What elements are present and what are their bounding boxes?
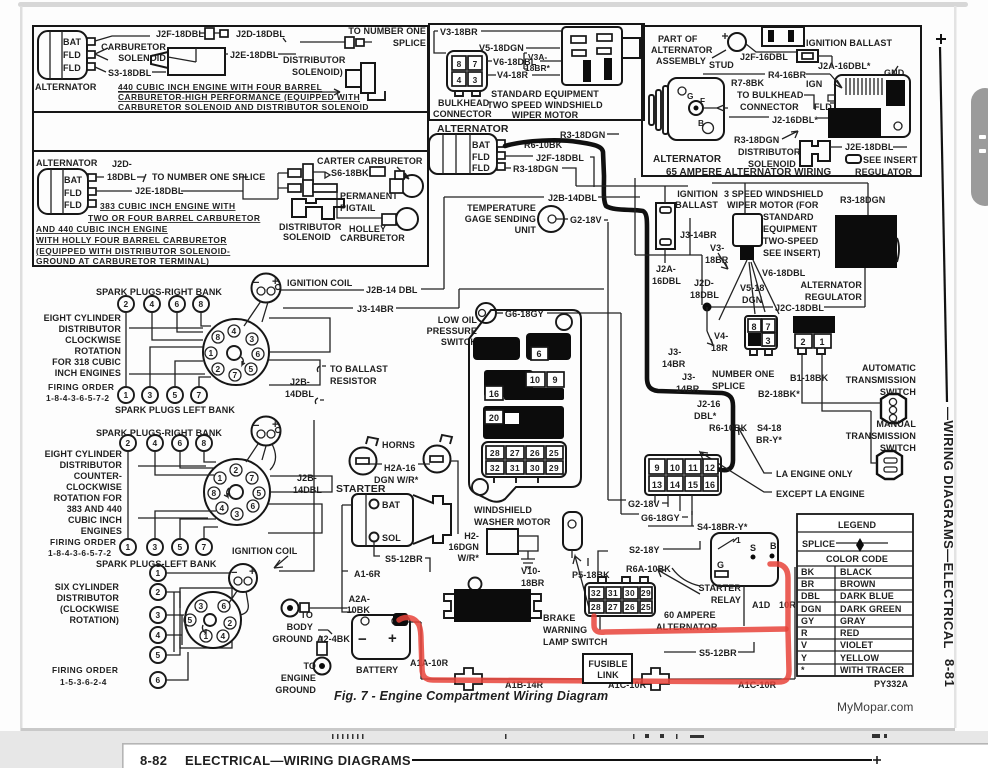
svg-text:EIGHT CYLINDER: EIGHT CYLINDER bbox=[44, 313, 122, 323]
heavy wire R3-18DGN main run bbox=[505, 140, 733, 470]
svg-text:J2D-: J2D- bbox=[694, 278, 714, 288]
svg-text:Fig. 7 - Engine Compartment Wi: Fig. 7 - Engine Compartment Wiring Diagr… bbox=[334, 689, 608, 703]
svg-text:V3-18BR: V3-18BR bbox=[440, 27, 478, 37]
svg-text:BROWN: BROWN bbox=[840, 579, 876, 589]
wiper wires fan to bulkhead 2 bbox=[719, 260, 779, 320]
svg-text:S5-12BR: S5-12BR bbox=[385, 554, 423, 564]
svg-text:32: 32 bbox=[591, 588, 601, 598]
svg-text:8-81: 8-81 bbox=[942, 659, 957, 687]
svg-text:4: 4 bbox=[155, 630, 160, 640]
svg-text:31: 31 bbox=[608, 588, 618, 598]
stud bbox=[728, 33, 746, 51]
svg-text:6: 6 bbox=[250, 501, 255, 511]
svg-text:28: 28 bbox=[591, 602, 601, 612]
svg-text:J2F-16DBL: J2F-16DBL bbox=[740, 52, 788, 62]
terminals 1 3 5 7 (sec2) bbox=[120, 539, 212, 555]
connector grid 9-16 bbox=[645, 455, 721, 495]
svg-text:DGN: DGN bbox=[742, 295, 762, 305]
ignition coil IC3 bbox=[229, 564, 257, 615]
terminals 2 4 6 8 (sec2) bbox=[120, 435, 212, 451]
svg-text:A1A-10R: A1A-10R bbox=[410, 658, 449, 668]
svg-text:8: 8 bbox=[201, 438, 206, 448]
svg-text:G2-18V: G2-18V bbox=[628, 499, 660, 509]
svg-text:6: 6 bbox=[255, 349, 260, 359]
svg-text:25: 25 bbox=[549, 448, 559, 458]
svg-text:CARBURETOR SOLENOID AND DISTRI: CARBURETOR SOLENOID AND DISTRIBUTOR SOLE… bbox=[118, 102, 369, 112]
svg-text:BR: BR bbox=[801, 579, 815, 589]
svg-text:+: + bbox=[249, 566, 256, 578]
svg-text:6: 6 bbox=[174, 299, 179, 309]
svg-text:*: * bbox=[801, 665, 805, 675]
two speed wiper motor symbol bbox=[562, 27, 640, 85]
connector J2F bbox=[200, 32, 220, 34]
svg-text:PART OF: PART OF bbox=[658, 34, 698, 44]
scrollbar pill bbox=[971, 88, 988, 206]
svg-text:18BR: 18BR bbox=[521, 578, 545, 588]
svg-text:27: 27 bbox=[510, 448, 520, 458]
distributor D2 (8cyl counter-clockwise) bbox=[204, 459, 270, 525]
starter motor bbox=[352, 494, 451, 546]
svg-text:440 CUBIC INCH ENGINE WITH FOU: 440 CUBIC INCH ENGINE WITH FOUR BARREL bbox=[118, 82, 322, 92]
distributor solenoid symbol (383) bbox=[292, 199, 344, 219]
svg-text:FLD: FLD bbox=[64, 200, 82, 210]
svg-text:5: 5 bbox=[248, 364, 253, 374]
distributor D3 (6cyl) bbox=[180, 588, 241, 648]
svg-text:3: 3 bbox=[155, 610, 160, 620]
svg-text:J2-16DBL*: J2-16DBL* bbox=[772, 115, 818, 125]
svg-text:2: 2 bbox=[125, 438, 130, 448]
svg-text:BRAKE: BRAKE bbox=[543, 613, 576, 623]
svg-text:CLOCKWISE: CLOCKWISE bbox=[65, 335, 121, 345]
svg-text:ALTERNATOR: ALTERNATOR bbox=[653, 154, 722, 165]
svg-text:ENGINES: ENGINES bbox=[81, 526, 122, 536]
svg-text:4: 4 bbox=[219, 503, 224, 513]
bulkhead connector (8 7 / 4 3) bbox=[433, 51, 492, 119]
svg-text:5: 5 bbox=[172, 390, 177, 400]
svg-text:TO NUMBER ONE SPLICE: TO NUMBER ONE SPLICE bbox=[152, 172, 265, 182]
svg-text:J3-: J3- bbox=[668, 347, 681, 357]
svg-text:15: 15 bbox=[688, 480, 698, 490]
alternator regulator blob bbox=[835, 215, 897, 268]
svg-text:MyMopar.com: MyMopar.com bbox=[837, 700, 913, 714]
svg-text:J2B-14 DBL: J2B-14 DBL bbox=[366, 285, 418, 295]
wires section 1 bbox=[126, 312, 211, 387]
svg-text:GRAY: GRAY bbox=[840, 616, 866, 626]
svg-text:SPLICE: SPLICE bbox=[712, 381, 745, 391]
svg-text:WITH HOLLY FOUR BARREL CARBURE: WITH HOLLY FOUR BARREL CARBURETOR bbox=[36, 235, 227, 245]
wire FLD splice bbox=[95, 48, 108, 72]
alternator A3 (main diagram) bbox=[429, 123, 509, 174]
svg-text:PY332A: PY332A bbox=[874, 679, 909, 689]
fuse block outline bbox=[469, 310, 581, 502]
bulkhead connector 2 (8 7 / blk 3) bbox=[745, 316, 777, 355]
svg-text:8: 8 bbox=[198, 299, 203, 309]
svg-text:12: 12 bbox=[705, 463, 715, 473]
page top gray band bbox=[18, 2, 968, 7]
svg-text:60 AMPERE: 60 AMPERE bbox=[664, 610, 716, 620]
svg-text:Y: Y bbox=[801, 653, 807, 663]
svg-text:AUTOMATIC: AUTOMATIC bbox=[862, 363, 916, 373]
alternator symbol (65A) bbox=[649, 78, 728, 140]
svg-text:DISTRIBUTOR: DISTRIBUTOR bbox=[738, 147, 801, 157]
svg-text:FUSIBLE: FUSIBLE bbox=[588, 659, 627, 669]
svg-text:R3-18DGN: R3-18DGN bbox=[840, 195, 885, 205]
svg-text:TWO SPEED WINDSHIELD: TWO SPEED WINDSHIELD bbox=[487, 100, 603, 110]
svg-text:WASHER MOTOR: WASHER MOTOR bbox=[474, 517, 551, 527]
svg-text:S3-18DBL: S3-18DBL bbox=[108, 68, 152, 78]
svg-text:B: B bbox=[698, 118, 704, 128]
svg-text:BAT: BAT bbox=[63, 37, 82, 47]
G6-18GY sender bbox=[476, 303, 496, 323]
svg-text:ROTATION): ROTATION) bbox=[69, 615, 119, 625]
wire J3-14BR long bbox=[283, 289, 604, 308]
svg-text:DISTRIBUTOR: DISTRIBUTOR bbox=[283, 55, 346, 65]
svg-text:14DBL: 14DBL bbox=[293, 485, 322, 495]
svg-text:B: B bbox=[770, 541, 777, 551]
svg-text:3 SPEED WINDSHIELD: 3 SPEED WINDSHIELD bbox=[724, 189, 824, 199]
svg-text:+: + bbox=[388, 630, 397, 647]
svg-text:G: G bbox=[717, 560, 724, 570]
svg-text:ALTERNATOR: ALTERNATOR bbox=[651, 45, 713, 55]
svg-text:1: 1 bbox=[208, 348, 213, 358]
fuse block bars row1 bbox=[473, 337, 520, 360]
svg-text:—WIRING DIAGRAMS—ELECTRICAL: —WIRING DIAGRAMS—ELECTRICAL bbox=[941, 407, 956, 649]
svg-text:3: 3 bbox=[152, 542, 157, 552]
bulkhead cross connector 2 bbox=[642, 668, 669, 690]
svg-text:5: 5 bbox=[256, 488, 261, 498]
svg-text:TWO-SPEED: TWO-SPEED bbox=[763, 236, 819, 246]
svg-text:2: 2 bbox=[800, 337, 805, 347]
svg-text:BATTERY: BATTERY bbox=[356, 665, 398, 675]
svg-text:TWO OR FOUR BARREL CARBURETOR: TWO OR FOUR BARREL CARBURETOR bbox=[88, 213, 260, 223]
inset box frame (two speed wiper motor) bbox=[429, 24, 644, 120]
svg-text:J2D-18DBL: J2D-18DBL bbox=[236, 29, 285, 39]
svg-text:1: 1 bbox=[819, 337, 824, 347]
svg-text:TRANSMISSION: TRANSMISSION bbox=[846, 375, 916, 385]
svg-text:13: 13 bbox=[652, 480, 662, 490]
spark plug terminals 1 3 5 7 bbox=[118, 387, 207, 403]
svg-text:11: 11 bbox=[688, 463, 698, 473]
divider line above 383 insert bbox=[33, 150, 428, 152]
svg-text:FIRING ORDER: FIRING ORDER bbox=[52, 665, 118, 675]
svg-text:S6-18BK: S6-18BK bbox=[331, 168, 369, 178]
svg-text:18DBL: 18DBL bbox=[690, 290, 719, 300]
svg-text:TEMPERATURE: TEMPERATURE bbox=[467, 203, 536, 213]
svg-text:27: 27 bbox=[608, 602, 618, 612]
svg-text:WIPER MOTOR (FOR: WIPER MOTOR (FOR bbox=[727, 200, 819, 210]
svg-text:CLOCKWISE: CLOCKWISE bbox=[66, 482, 122, 492]
svg-text:30: 30 bbox=[625, 588, 635, 598]
svg-text:DISTRIBUTOR: DISTRIBUTOR bbox=[60, 460, 123, 470]
svg-text:65 AMPERE ALTERNATOR WIRING: 65 AMPERE ALTERNATOR WIRING bbox=[666, 167, 832, 178]
wire BAT to J2F-18DBL bbox=[95, 36, 150, 41]
svg-text:BODY: BODY bbox=[287, 622, 313, 632]
svg-text:BLACK: BLACK bbox=[840, 567, 872, 577]
svg-text:LINK: LINK bbox=[597, 670, 619, 680]
svg-text:LEGEND: LEGEND bbox=[838, 520, 877, 530]
bulkhead cross connector 1 bbox=[455, 668, 482, 690]
svg-text:3: 3 bbox=[473, 75, 478, 85]
svg-text:J2A-16DBL*: J2A-16DBL* bbox=[818, 61, 871, 71]
svg-text:2: 2 bbox=[215, 364, 220, 374]
svg-text:5: 5 bbox=[177, 542, 182, 552]
svg-text:COLOR CODE: COLOR CODE bbox=[826, 554, 888, 564]
svg-text:CARBURETOR: CARBURETOR bbox=[101, 42, 166, 52]
svg-text:BR-Y*: BR-Y* bbox=[756, 435, 782, 445]
svg-text:MANUAL: MANUAL bbox=[876, 419, 916, 429]
svg-text:BAT: BAT bbox=[382, 500, 401, 510]
legend table bbox=[797, 514, 913, 676]
svg-text:BK: BK bbox=[801, 567, 815, 577]
svg-text:FOR 318 CUBIC: FOR 318 CUBIC bbox=[52, 357, 121, 367]
svg-text:7: 7 bbox=[201, 542, 206, 552]
red highlighter path (battery to starter relay B) bbox=[399, 564, 789, 682]
svg-text:5: 5 bbox=[155, 650, 160, 660]
3 speed wiper motor symbol bbox=[733, 214, 762, 246]
svg-text:8: 8 bbox=[751, 322, 756, 332]
svg-text:DARK GREEN: DARK GREEN bbox=[840, 604, 902, 614]
svg-text:4: 4 bbox=[152, 438, 157, 448]
svg-text:LAMP SWITCH: LAMP SWITCH bbox=[543, 637, 607, 647]
svg-text:1: 1 bbox=[123, 390, 128, 400]
svg-text:J2D-: J2D- bbox=[112, 159, 132, 169]
next page (8-82) bbox=[122, 743, 988, 768]
svg-text:H2-: H2- bbox=[464, 531, 479, 541]
svg-text:SPARK PLUGS LEFT BANK: SPARK PLUGS LEFT BANK bbox=[115, 405, 235, 415]
svg-text:WARNING: WARNING bbox=[543, 625, 587, 635]
svg-text:383 CUBIC INCH ENGINE WITH: 383 CUBIC INCH ENGINE WITH bbox=[100, 201, 235, 211]
svg-text:10BK: 10BK bbox=[347, 605, 371, 615]
svg-text:V: V bbox=[801, 640, 807, 650]
svg-text:S4-18: S4-18 bbox=[757, 423, 782, 433]
svg-text:18R: 18R bbox=[711, 343, 728, 353]
svg-text:7: 7 bbox=[473, 59, 478, 69]
svg-text:9: 9 bbox=[654, 463, 659, 473]
svg-text:STARTER: STARTER bbox=[698, 583, 741, 593]
svg-text:8: 8 bbox=[457, 59, 462, 69]
svg-text:S: S bbox=[750, 543, 756, 553]
svg-text:ASSEMBLY: ASSEMBLY bbox=[656, 56, 706, 66]
svg-text:R7-8BK: R7-8BK bbox=[731, 78, 765, 88]
svg-text:1: 1 bbox=[155, 568, 160, 578]
svg-text:16DGN: 16DGN bbox=[448, 542, 479, 552]
svg-text:P5-18BK: P5-18BK bbox=[572, 570, 610, 580]
svg-text:1: 1 bbox=[736, 535, 741, 545]
svg-text:WIPER MOTOR: WIPER MOTOR bbox=[512, 110, 579, 120]
svg-text:8: 8 bbox=[215, 332, 220, 342]
svg-text:GND: GND bbox=[884, 68, 905, 78]
svg-text:COUNTER-: COUNTER- bbox=[74, 471, 122, 481]
svg-text:J2E-18DBL: J2E-18DBL bbox=[845, 142, 894, 152]
svg-text:3: 3 bbox=[249, 334, 254, 344]
svg-text:GROUND AT CARBURETOR TERMINAL): GROUND AT CARBURETOR TERMINAL) bbox=[36, 256, 209, 266]
svg-text:2: 2 bbox=[123, 299, 128, 309]
svg-text:W/R*: W/R* bbox=[458, 553, 480, 563]
inset box frame (65 ampere alternator wiring) bbox=[642, 26, 921, 176]
svg-text:J2E-18DBL: J2E-18DBL bbox=[230, 50, 279, 60]
brake warning lamp switch bbox=[563, 512, 582, 558]
svg-text:R: R bbox=[801, 628, 808, 638]
svg-text:(EQUIPPED WITH DISTRIBUTOR SOL: (EQUIPPED WITH DISTRIBUTOR SOLENOID- bbox=[36, 246, 230, 256]
connector 2 1 with black top bbox=[793, 316, 835, 354]
svg-text:TO BALLAST: TO BALLAST bbox=[330, 364, 388, 374]
svg-text:V4-: V4- bbox=[714, 331, 728, 341]
svg-text:EXCEPT LA ENGINE: EXCEPT LA ENGINE bbox=[776, 489, 865, 499]
svg-text:SEE INSERT): SEE INSERT) bbox=[763, 248, 821, 258]
carburetor solenoid symbol bbox=[168, 48, 225, 75]
page right edge bbox=[954, 6, 957, 728]
svg-text:GAGE SENDING: GAGE SENDING bbox=[465, 214, 536, 224]
battery bbox=[352, 613, 410, 675]
splice plug row 1 bbox=[288, 169, 301, 177]
svg-text:3: 3 bbox=[147, 390, 152, 400]
svg-text:PIGTAIL: PIGTAIL bbox=[340, 203, 376, 213]
svg-text:V3-: V3- bbox=[710, 243, 724, 253]
svg-text:1-8-4-3-6-5-7-2: 1-8-4-3-6-5-7-2 bbox=[46, 393, 110, 403]
svg-text:7: 7 bbox=[249, 473, 254, 483]
body ground symbol bbox=[282, 600, 299, 617]
svg-text:14DBL: 14DBL bbox=[285, 389, 314, 399]
svg-text:PERMANENT: PERMANENT bbox=[340, 191, 398, 201]
alternator A2 (383 insert) bbox=[36, 158, 98, 214]
svg-text:DBL*: DBL* bbox=[694, 411, 717, 421]
fusible link box bbox=[583, 654, 632, 683]
svg-text:7: 7 bbox=[196, 390, 201, 400]
ignition ballast (65A box) bbox=[762, 27, 804, 46]
svg-text:30: 30 bbox=[530, 463, 540, 473]
svg-text:BALLAST: BALLAST bbox=[675, 200, 718, 210]
gray gap between pages bbox=[0, 731, 988, 768]
svg-text:R3-18DGN: R3-18DGN bbox=[513, 164, 558, 174]
distributor solenoid symbol (65A) bbox=[800, 141, 830, 166]
svg-text:BAT: BAT bbox=[472, 140, 491, 150]
svg-text:EIGHT CYLINDER: EIGHT CYLINDER bbox=[45, 449, 123, 459]
svg-text:10: 10 bbox=[530, 375, 540, 385]
svg-text:3: 3 bbox=[234, 509, 239, 519]
alternator A1 (440 HP insert) bbox=[35, 31, 97, 92]
splice plug row 2 bbox=[288, 184, 301, 192]
wires to switches bbox=[802, 354, 881, 463]
wire J2B-14 DBL long bbox=[281, 197, 640, 290]
svg-text:STANDARD EQUIPMENT: STANDARD EQUIPMENT bbox=[491, 89, 599, 99]
fuse block bars row3 bbox=[483, 406, 564, 439]
svg-text:IGNITION COIL: IGNITION COIL bbox=[287, 278, 353, 288]
svg-text:J2E-18DBL: J2E-18DBL bbox=[135, 186, 184, 196]
wires below grid 9-16 bbox=[655, 495, 692, 515]
svg-text:32: 32 bbox=[490, 463, 500, 473]
svg-text:S4-18BR-Y*: S4-18BR-Y* bbox=[697, 522, 748, 532]
svg-text:IGNITION BALLAST: IGNITION BALLAST bbox=[806, 38, 892, 48]
svg-text:WITH TRACER: WITH TRACER bbox=[840, 665, 904, 675]
svg-text:4: 4 bbox=[457, 75, 462, 85]
svg-text:8: 8 bbox=[211, 488, 216, 498]
svg-text:2: 2 bbox=[233, 465, 238, 475]
svg-text:2: 2 bbox=[155, 587, 160, 597]
svg-text:RESISTOR: RESISTOR bbox=[330, 376, 377, 386]
svg-text:REGULATOR: REGULATOR bbox=[855, 167, 912, 177]
svg-text:FLD: FLD bbox=[472, 163, 490, 173]
svg-text:J2-16: J2-16 bbox=[697, 399, 721, 409]
svg-text:−: − bbox=[358, 631, 367, 648]
long vertical J2B to coil 3 bbox=[279, 420, 314, 571]
svg-text:VIOLET: VIOLET bbox=[840, 640, 874, 650]
terminals 1-6 column bbox=[150, 565, 166, 688]
black wire under red bottom run bbox=[408, 567, 795, 679]
svg-text:FIRING ORDER: FIRING ORDER bbox=[50, 537, 116, 547]
svg-text:FIRING ORDER: FIRING ORDER bbox=[48, 382, 114, 392]
svg-text:14BR: 14BR bbox=[662, 359, 686, 369]
svg-text:F: F bbox=[700, 96, 705, 106]
svg-text:J3-14BR: J3-14BR bbox=[680, 230, 717, 240]
svg-text:SOL: SOL bbox=[382, 533, 401, 543]
svg-text:FLD: FLD bbox=[63, 63, 81, 73]
svg-text:J2C-18DBL: J2C-18DBL bbox=[775, 303, 824, 313]
holley carburetor symbol bbox=[396, 208, 418, 230]
svg-text:LOW OIL: LOW OIL bbox=[438, 315, 478, 325]
ignition coil IC2 bbox=[246, 417, 281, 471]
svg-text:6: 6 bbox=[155, 675, 160, 685]
svg-text:DARK BLUE: DARK BLUE bbox=[840, 591, 894, 601]
carter carburetor symbol bbox=[401, 175, 423, 197]
svg-text:IGNITION COIL: IGNITION COIL bbox=[232, 546, 298, 556]
svg-text:REGULATOR: REGULATOR bbox=[805, 292, 862, 302]
svg-text:1-8-4-3-6-5-7-2: 1-8-4-3-6-5-7-2 bbox=[48, 548, 112, 558]
fuse block bars row2 bbox=[484, 370, 533, 397]
svg-text:26: 26 bbox=[530, 448, 540, 458]
svg-text:1-5-3-6-2-4: 1-5-3-6-2-4 bbox=[60, 677, 107, 687]
svg-text:8-82: 8-82 bbox=[140, 753, 167, 768]
svg-text:5: 5 bbox=[187, 615, 192, 625]
svg-text:S5-12BR: S5-12BR bbox=[699, 648, 737, 658]
wires section 3 bbox=[166, 573, 229, 680]
svg-text:DISTRIBUTOR: DISTRIBUTOR bbox=[59, 324, 122, 334]
svg-text:4: 4 bbox=[220, 631, 225, 641]
svg-text:V6-18DBL: V6-18DBL bbox=[762, 268, 806, 278]
svg-text:V3A-: V3A- bbox=[528, 52, 547, 62]
svg-text:BULKHEAD: BULKHEAD bbox=[438, 98, 490, 108]
svg-text:1: 1 bbox=[217, 473, 222, 483]
svg-text:10: 10 bbox=[670, 463, 680, 473]
svg-text:NUMBER ONE: NUMBER ONE bbox=[712, 369, 775, 379]
svg-text:3: 3 bbox=[765, 336, 770, 346]
svg-text:29: 29 bbox=[641, 588, 651, 598]
svg-text:DISTRIBUTOR: DISTRIBUTOR bbox=[279, 222, 342, 232]
svg-text:J2A-: J2A- bbox=[656, 264, 676, 274]
junction splice dot bbox=[703, 303, 712, 312]
svg-text:DGN: DGN bbox=[801, 604, 821, 614]
svg-text:383 AND 440: 383 AND 440 bbox=[67, 504, 122, 514]
svg-text:H2A-16: H2A-16 bbox=[384, 463, 416, 473]
svg-text:SPLICE: SPLICE bbox=[802, 539, 835, 549]
connector grid 32-29/28-25 bbox=[585, 577, 655, 616]
svg-text:ALTERNATOR: ALTERNATOR bbox=[801, 280, 863, 290]
svg-text:28: 28 bbox=[490, 448, 500, 458]
svg-text:SOLENOID): SOLENOID) bbox=[292, 67, 343, 77]
svg-text:YELLOW: YELLOW bbox=[840, 653, 880, 663]
svg-text:DBL: DBL bbox=[801, 591, 820, 601]
svg-text:A1-6R: A1-6R bbox=[354, 569, 381, 579]
next page tick marks bbox=[332, 734, 887, 739]
svg-text:LA ENGINE ONLY: LA ENGINE ONLY bbox=[776, 469, 853, 479]
svg-text:TO BULKHEAD: TO BULKHEAD bbox=[737, 90, 804, 100]
starter relay bbox=[711, 533, 778, 586]
spark plug terminals 2 4 6 8 bbox=[118, 296, 209, 312]
svg-text:4: 4 bbox=[231, 326, 236, 336]
svg-text:7: 7 bbox=[765, 322, 770, 332]
svg-text:CUBIC INCH: CUBIC INCH bbox=[68, 515, 122, 525]
svg-text:UNIT: UNIT bbox=[515, 225, 537, 235]
svg-text:J2B-: J2B- bbox=[290, 377, 310, 387]
